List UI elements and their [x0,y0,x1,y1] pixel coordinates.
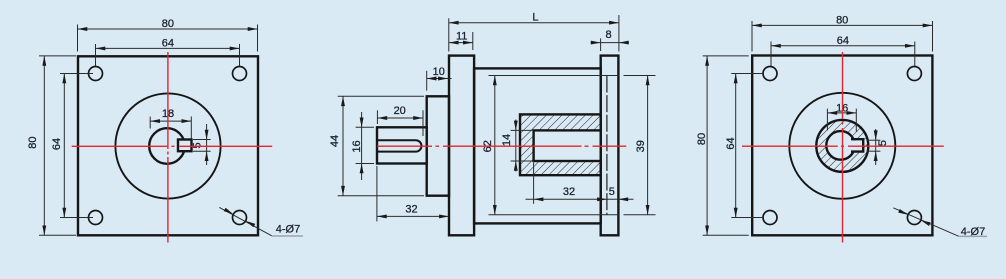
centerline horizontal (left view) [72,145,273,147]
centerline axis (middle view) [377,145,626,147]
svg-text:10: 10 [433,66,445,78]
svg-text:32: 32 [563,186,575,198]
coupling sleeve hatched section [520,114,601,175]
dim 5 keyway (left view) [193,124,211,165]
svg-text:80: 80 [836,14,848,26]
dim 16 hub bore (right view) [827,109,856,132]
svg-text:64: 64 [162,37,174,49]
leader 4-Ø7 (right view) [893,208,958,236]
flange plate outline (right view) [752,56,932,236]
svg-text:80: 80 [696,133,708,145]
dim 39 [624,76,656,215]
dim 80 top (left view) [78,25,258,52]
svg-text:80: 80 [27,136,39,148]
hub bore [826,131,855,160]
rear pilot recess hidden line [606,76,608,216]
dim 18 bore (left view) [150,117,191,139]
coupling bore [534,130,601,161]
input shaft [377,127,427,163]
dim 5 rear recess depth [618,197,628,201]
dim 80 left (right view) [703,56,749,235]
svg-text:11: 11 [456,30,467,42]
shaft keyway slot [377,140,421,151]
dim 8 rear flange [591,38,629,51]
dim 64 left (right view) [731,74,763,218]
dim 14 coupling bore diameter [511,120,534,172]
mounting hole top-left (right view) [763,67,777,81]
svg-text:64: 64 [725,137,737,149]
dim 62 rear pilot diameter [489,76,619,215]
svg-text:5: 5 [609,186,615,198]
mounting hole bottom-left (right view) [763,211,777,225]
gearbox body [474,68,601,223]
flange plate outline (left view) [78,56,258,235]
leader 4-Ø7 (left view) [219,207,271,235]
svg-text:64: 64 [51,138,63,150]
svg-text:64: 64 [837,35,849,47]
dim 44 boss diameter [338,96,424,195]
mounting hole bottom-right (right view) [907,211,921,225]
dim 32 coupling depth [526,163,634,204]
front flange plate (side) [449,56,474,236]
mounting hole bottom-left [89,211,103,225]
rear flange plate (side) [601,56,619,236]
dim 64 top (left view) [96,44,240,66]
svg-text:8: 8 [605,29,611,41]
mounting hole top-right [233,67,247,81]
svg-text:L: L [532,12,538,24]
dim 80 left (left view) [39,56,76,235]
svg-text:16: 16 [351,140,363,152]
svg-text:5: 5 [877,140,889,146]
dim 16 shaft diameter [356,112,374,180]
pilot boss circle [115,93,220,198]
svg-text:32: 32 [405,203,417,215]
dim 64 top (right view) [771,42,915,67]
hub keyway notch [850,140,862,150]
svg-text:14: 14 [501,134,513,146]
mounting hole top-right (right view) [907,67,921,81]
svg-text:4-Ø7: 4-Ø7 [961,226,985,238]
hub hatched section [816,120,868,172]
mounting hole top-left [89,67,103,81]
centerline vertical (right view) [842,52,844,243]
svg-text:39: 39 [635,140,647,152]
dim L top [449,15,619,52]
svg-text:80: 80 [162,18,174,30]
dim 10 boss length [427,71,452,91]
svg-text:44: 44 [329,135,341,147]
shaft bore circle [149,128,185,164]
dim 64 left (left view) [60,74,93,218]
svg-text:20: 20 [394,105,406,117]
svg-text:4-Ø7: 4-Ø7 [276,224,300,236]
pilot boss circle (right view) [789,93,895,199]
dim 80 top (right view) [752,21,933,52]
dim 11 front flange [449,32,473,50]
dim 20 keyway length [377,110,423,136]
keyway square [178,140,192,152]
dim 5 hub keyway (right view) [867,129,881,165]
centerline vertical (left view) [167,52,169,243]
front boss [427,96,449,195]
mounting hole bottom-right [233,211,247,225]
dim 32 shaft length [377,166,449,221]
centerline horizontal (right view) [742,145,944,147]
svg-text:5: 5 [192,142,204,148]
